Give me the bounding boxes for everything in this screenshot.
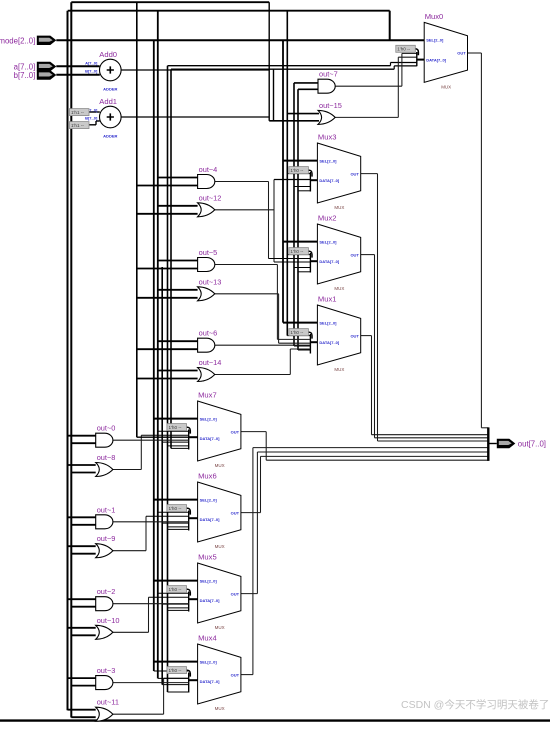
svg-text:out~11: out~11 bbox=[97, 698, 119, 707]
wire Mux3 joiner seg bbox=[378, 440, 489, 442]
input port b[7..0] bbox=[37, 70, 57, 79]
wire v x=287.3 bbox=[286, 11, 288, 336]
and gate out~6 bbox=[198, 338, 215, 352]
wire mode trunk south x=153.8 bbox=[153, 40, 155, 671]
wire left gate in1 y=517.3 bbox=[68, 516, 96, 518]
or gate out~13 bbox=[198, 287, 215, 301]
wire Mux1 joiner seg bbox=[372, 434, 489, 436]
wire out~7 in1 bbox=[294, 82, 318, 84]
bus comb Mux7 bbox=[188, 430, 190, 450]
wire out~13 comb seg bbox=[279, 342, 311, 344]
wire top bus y=2.2 bbox=[71, 1, 269, 3]
svg-text:out~1: out~1 bbox=[97, 505, 116, 514]
wire Mux7 or climb bbox=[140, 435, 142, 469]
svg-text:OUT: OUT bbox=[231, 672, 240, 677]
wire Mux5 joiner seg bbox=[257, 451, 488, 453]
svg-text:out~4: out~4 bbox=[199, 165, 218, 174]
constant Mux0 bbox=[396, 45, 416, 52]
wire fan jog x=394.2 bbox=[393, 66, 395, 69]
wire Mux5 comb lines bbox=[158, 592, 189, 594]
svg-text:MUX: MUX bbox=[334, 286, 344, 291]
svg-text:1'h0 --: 1'h0 -- bbox=[397, 47, 410, 52]
wire Mux2 comb lines bbox=[287, 254, 310, 256]
wire mid gate in2 y=349.2 bbox=[137, 348, 198, 350]
svg-text:Mux1: Mux1 bbox=[318, 295, 337, 304]
wire mid gate in2 y=378.5 bbox=[137, 378, 198, 380]
wire Mux7 DATA feeder bbox=[137, 436, 189, 438]
wire add fan y=65.7 bbox=[168, 65, 391, 67]
wire add fan y=69.2 bbox=[171, 68, 394, 70]
svg-text:1'h0 --: 1'h0 -- bbox=[169, 668, 182, 673]
svg-text:out~0: out~0 bbox=[97, 424, 116, 433]
and gate out~0 bbox=[96, 433, 113, 447]
mux Mux3 bbox=[317, 143, 360, 203]
mux Mux1 bbox=[317, 305, 360, 365]
and gate out~1 bbox=[96, 515, 113, 529]
wire const hook bbox=[186, 508, 190, 514]
svg-text:DATA[7..0]: DATA[7..0] bbox=[426, 57, 447, 62]
wire Mux4 or climb bbox=[163, 678, 165, 714]
svg-text:out~13: out~13 bbox=[199, 277, 222, 286]
wire Mux6 SEL stub bbox=[154, 499, 198, 501]
wire out~14 comb seg bbox=[290, 348, 310, 350]
wire out~7 comb seg bbox=[402, 52, 417, 54]
bus comb Mux2 bbox=[309, 253, 311, 273]
svg-text:out~15: out~15 bbox=[319, 101, 342, 110]
bus comb Mux1 bbox=[309, 334, 311, 354]
wire out~5 descent bbox=[276, 265, 278, 340]
bus comb Mux3 bbox=[309, 172, 311, 192]
svg-text:OUT: OUT bbox=[231, 429, 240, 434]
wire Mux0 out drop bbox=[480, 53, 482, 428]
wire Mux7 comb lines bbox=[158, 430, 189, 432]
wire trunk x=136.8 bbox=[136, 2, 138, 437]
wire out~12 out bbox=[215, 209, 274, 211]
svg-text:OUT: OUT bbox=[350, 333, 359, 338]
wire Mux7 joiner seg bbox=[266, 459, 488, 461]
svg-text:1'h0 --: 1'h0 -- bbox=[169, 425, 182, 430]
wire mid gate in1 y=370.5 bbox=[158, 370, 198, 372]
svg-text:out~12: out~12 bbox=[199, 193, 222, 202]
svg-text:mode[2..0]: mode[2..0] bbox=[0, 36, 35, 45]
constant Mux6 bbox=[167, 505, 187, 512]
adder Add1 bbox=[100, 106, 122, 128]
wire left gate in2 y=635.3 bbox=[71, 634, 95, 636]
and gate out~7 bbox=[318, 79, 335, 93]
wire Mux5 SEL stub bbox=[154, 580, 198, 582]
wire left gate in1 y=627.8 bbox=[68, 627, 96, 629]
svg-text:OUT: OUT bbox=[350, 252, 359, 257]
svg-text:DATA[7..0]: DATA[7..0] bbox=[200, 679, 221, 684]
wire const to Add1.A bbox=[89, 111, 100, 113]
wire Mux2 SEL stub bbox=[283, 241, 317, 243]
svg-text:SEL[2..0]: SEL[2..0] bbox=[200, 416, 218, 421]
wire const to Add1.B elbow bbox=[89, 124, 96, 126]
wire Mux6 or-out bbox=[113, 550, 146, 552]
constant Mux5 bbox=[167, 586, 187, 593]
wire Mux4 out bbox=[241, 674, 253, 676]
wire b trunk x=71.3 bbox=[70, 2, 72, 717]
svg-text:SEL[2..0]: SEL[2..0] bbox=[426, 38, 444, 43]
svg-text:MUX: MUX bbox=[334, 367, 344, 372]
svg-text:out~9: out~9 bbox=[97, 534, 116, 543]
wire mid gate in2 y=213.8 bbox=[137, 213, 198, 215]
wire left gate in1 y=678.1 bbox=[68, 677, 96, 679]
mux Mux2 bbox=[317, 224, 360, 284]
wire const hook bbox=[186, 589, 190, 596]
wire Mux0 joiner jog bbox=[481, 427, 488, 429]
wire out~6 out bbox=[215, 344, 311, 346]
wire Mux5 and-out bbox=[113, 603, 189, 605]
wire mid gate in2 y=268.5 bbox=[137, 268, 198, 270]
svg-text:1'h0 --: 1'h0 -- bbox=[290, 330, 303, 335]
wire Mux6 comb lines bbox=[158, 511, 189, 513]
wire out~15 in2 bbox=[269, 120, 319, 122]
mux Mux6 bbox=[198, 482, 241, 542]
svg-text:out[7..0]: out[7..0] bbox=[518, 440, 546, 449]
wire Mux1 SEL stub bbox=[283, 322, 317, 324]
wire Add1 out y=117 bbox=[121, 116, 269, 118]
bus comb Mux4 bbox=[188, 673, 190, 693]
svg-text:SEL[2..0]: SEL[2..0] bbox=[200, 578, 218, 583]
or gate out~14 bbox=[198, 368, 215, 382]
wire const hook bbox=[308, 332, 312, 339]
wire left gate in1 y=435.7 bbox=[68, 435, 96, 437]
svg-text:OUT: OUT bbox=[350, 171, 359, 176]
or gate out~10 bbox=[96, 625, 113, 639]
wire out~4 descent bbox=[268, 182, 270, 259]
wire left gate in2 y=606.7 bbox=[71, 606, 95, 608]
wire out~13 descent bbox=[278, 294, 280, 343]
wire fan into comb0 y=62.5 bbox=[391, 62, 417, 64]
wire Mux1 comb lines bbox=[287, 335, 310, 337]
wire Mux6 and-out bbox=[113, 521, 189, 523]
wire Mux1 out bbox=[361, 335, 372, 337]
svg-text:DATA[7..0]: DATA[7..0] bbox=[319, 178, 340, 183]
wire out~7 climb bbox=[401, 53, 403, 86]
wire left gate in1 y=599.2 bbox=[68, 598, 96, 600]
svg-text:MUX: MUX bbox=[215, 706, 225, 711]
svg-text:Mux0: Mux0 bbox=[425, 12, 444, 21]
wire Mux6 out bbox=[241, 512, 261, 514]
and gate out~3 bbox=[96, 676, 113, 690]
wire Mux2 drop bbox=[374, 255, 376, 438]
svg-text:Mux3: Mux3 bbox=[318, 133, 337, 142]
bus joiner out[7..0] bbox=[487, 427, 489, 461]
wire mode trunk mid x=283 bbox=[282, 40, 284, 322]
svg-text:SEL[2..0]: SEL[2..0] bbox=[200, 659, 218, 664]
wire mid gate in2 y=185.5 bbox=[137, 185, 198, 187]
wire Mux4 and-out bbox=[113, 682, 189, 684]
wire v x=298 bbox=[297, 89, 299, 350]
wire left gate in2 y=685.6 bbox=[71, 685, 95, 687]
wire mode branch drop x=389.7 bbox=[389, 11, 391, 41]
constant 1h1 A bbox=[70, 109, 90, 116]
wire mid gate in1 y=260.5 bbox=[158, 260, 198, 262]
wire fan jog x=390.5 bbox=[390, 63, 392, 66]
wire left gate in1 y=465.0 bbox=[68, 464, 96, 466]
svg-text:MUX: MUX bbox=[215, 625, 225, 630]
or gate out~8 bbox=[96, 463, 113, 477]
wire trunk x=167.5 bbox=[167, 66, 169, 692]
wire mid gate in1 y=289.8 bbox=[158, 289, 198, 291]
svg-text:out~14: out~14 bbox=[199, 358, 222, 367]
wire const hook bbox=[186, 670, 190, 677]
svg-text:Mux7: Mux7 bbox=[198, 391, 217, 400]
wire Mux6 joiner seg bbox=[261, 455, 489, 457]
wire out~5 comb seg bbox=[277, 338, 310, 340]
wire Mux5 riser bbox=[256, 452, 258, 594]
svg-text:out~7: out~7 bbox=[319, 70, 338, 79]
wire mid gate in2 y=297.8 bbox=[137, 297, 198, 299]
wire out~14 climb bbox=[289, 349, 291, 375]
wire Mux7 or-out bbox=[113, 469, 141, 471]
svg-text:out~2: out~2 bbox=[97, 587, 116, 596]
svg-text:ADDER: ADDER bbox=[103, 134, 117, 139]
mux Mux0 bbox=[424, 22, 467, 82]
wire Mux4 joiner seg bbox=[253, 447, 488, 449]
wire out~4 out bbox=[215, 181, 269, 183]
svg-text:1'h1 --: 1'h1 -- bbox=[71, 123, 84, 128]
mux Mux5 bbox=[198, 563, 241, 623]
constant Mux7 bbox=[167, 424, 187, 431]
wire out~15 in1 bbox=[287, 113, 319, 115]
wire b to Add0.B bbox=[56, 74, 100, 76]
bus comb Mux6 bbox=[188, 511, 190, 531]
svg-text:MUX: MUX bbox=[215, 463, 225, 468]
wire left gate in2 y=443.2 bbox=[71, 442, 95, 444]
svg-text:CSDN @今天不学习明天被卷了: CSDN @今天不学习明天被卷了 bbox=[401, 698, 549, 711]
or gate out~11 bbox=[96, 707, 113, 721]
wire left gate in1 y=546.2 bbox=[68, 545, 96, 547]
wire Mux4 or-out bbox=[113, 713, 164, 715]
wire const hook bbox=[186, 427, 190, 434]
svg-text:SEL[2..0]: SEL[2..0] bbox=[319, 320, 337, 325]
wire left gate in1 y=709.7 bbox=[68, 709, 96, 711]
wire Mux3 SEL stub bbox=[283, 160, 317, 162]
svg-text:1'h1 --: 1'h1 -- bbox=[71, 110, 84, 115]
wire trunk x=162.5 bbox=[161, 267, 163, 685]
wire const hook bbox=[308, 251, 312, 258]
mux Mux7 bbox=[198, 401, 241, 461]
wire v x=294 bbox=[293, 83, 295, 346]
wire out~7 in2 bbox=[298, 88, 318, 90]
wire left gate in2 y=553.7 bbox=[71, 553, 95, 555]
and gate out~5 bbox=[198, 258, 215, 272]
svg-text:B[7..0]: B[7..0] bbox=[85, 69, 98, 74]
wire Mux4 SEL stub bbox=[154, 661, 198, 663]
wire Mux5 out bbox=[241, 593, 258, 595]
svg-text:DATA[7..0]: DATA[7..0] bbox=[200, 598, 221, 603]
svg-text:Mux4: Mux4 bbox=[198, 634, 217, 643]
wire out~7 out bbox=[335, 85, 402, 87]
svg-text:1'h0 --: 1'h0 -- bbox=[290, 168, 303, 173]
border bottom line bbox=[0, 719, 550, 721]
wire Mux5 or-out bbox=[113, 631, 149, 633]
or gate out~15 bbox=[318, 110, 335, 124]
svg-text:ADDER: ADDER bbox=[103, 87, 117, 92]
wire left gate in2 y=524.8 bbox=[71, 524, 95, 526]
svg-text:out~6: out~6 bbox=[199, 329, 218, 338]
wire Mux7 out bbox=[241, 431, 266, 433]
svg-text:DATA[7..0]: DATA[7..0] bbox=[319, 259, 340, 264]
and gate out~2 bbox=[96, 597, 113, 611]
wire Mux1 drop bbox=[371, 336, 373, 435]
svg-text:Add0: Add0 bbox=[99, 50, 117, 59]
wire a to Add0.A bbox=[56, 65, 99, 67]
wire v x=274 bbox=[273, 180, 275, 263]
svg-text:A[7..0]: A[7..0] bbox=[85, 61, 98, 66]
adder Add0 bbox=[100, 59, 122, 81]
wire out~15 out bbox=[335, 116, 398, 118]
svg-text:b[7..0]: b[7..0] bbox=[14, 71, 36, 80]
constant Mux4 bbox=[167, 667, 187, 674]
wire mid gate in1 y=341.2 bbox=[158, 340, 198, 342]
wire Mux7 SEL stub bbox=[154, 418, 198, 420]
wire out~15 comb seg bbox=[398, 56, 417, 58]
wire Mux7 riser bbox=[265, 432, 267, 461]
svg-text:out~8: out~8 bbox=[97, 453, 116, 462]
svg-text:DATA[7..0]: DATA[7..0] bbox=[200, 517, 221, 522]
svg-text:Mux6: Mux6 bbox=[198, 472, 217, 481]
constant 1h1 B bbox=[70, 122, 90, 129]
constant Mux2 bbox=[289, 248, 309, 255]
svg-text:1'h0 --: 1'h0 -- bbox=[169, 587, 182, 592]
wire mode branch y=10.7 bbox=[68, 10, 390, 12]
wire Mux7 and-out bbox=[113, 439, 189, 441]
wire Mux3 drop bbox=[377, 174, 379, 441]
svg-text:OUT: OUT bbox=[457, 51, 466, 56]
wire Mux4 comb lines bbox=[154, 670, 189, 672]
svg-text:B[7..0]: B[7..0] bbox=[85, 116, 98, 121]
wire left gate in2 y=717.2 bbox=[71, 716, 95, 718]
wire mode bus to Mux0 SEL bbox=[56, 39, 424, 41]
svg-text:Mux2: Mux2 bbox=[318, 214, 337, 223]
svg-text:MUX: MUX bbox=[215, 544, 225, 549]
wire Mux3 comb lines bbox=[287, 173, 310, 175]
wire Mux6 or climb bbox=[145, 516, 147, 550]
wire mid gate in1 y=177.5 bbox=[158, 177, 198, 179]
svg-text:OUT: OUT bbox=[231, 591, 240, 596]
wire Mux3 out bbox=[361, 173, 378, 175]
svg-text:Add1: Add1 bbox=[99, 97, 117, 106]
or gate out~12 bbox=[198, 203, 215, 217]
input port mode[2..0] bbox=[37, 36, 57, 45]
wire out~5 out bbox=[215, 264, 278, 266]
wire Mux0 out bbox=[468, 52, 482, 54]
svg-text:DATA[7..0]: DATA[7..0] bbox=[200, 436, 221, 441]
svg-text:1'h0 --: 1'h0 -- bbox=[290, 249, 303, 254]
svg-text:OUT: OUT bbox=[231, 510, 240, 515]
bus comb Mux0 bbox=[416, 52, 418, 66]
svg-text:out~5: out~5 bbox=[199, 248, 218, 257]
constant Mux1 bbox=[289, 329, 309, 336]
output port out[7..0] bbox=[497, 439, 516, 448]
wire mid gate in1 y=205.8 bbox=[158, 205, 198, 207]
wire Mux5 or climb bbox=[148, 597, 150, 632]
wire Mux2 joiner seg bbox=[375, 437, 489, 439]
wire Mux2 out bbox=[361, 254, 375, 256]
wire out~15 climb bbox=[397, 57, 399, 117]
wire trunk x=171 bbox=[170, 69, 172, 448]
wire a trunk x=67.5 bbox=[67, 11, 69, 711]
input port a[7..0] bbox=[37, 62, 57, 71]
svg-text:SEL[2..0]: SEL[2..0] bbox=[319, 158, 337, 163]
wire Mux4 riser bbox=[252, 448, 254, 675]
constant Mux3 bbox=[289, 167, 309, 174]
wire Add0 out y=70 bbox=[121, 69, 269, 71]
mux Mux4 bbox=[198, 644, 241, 704]
svg-text:DATA[7..0]: DATA[7..0] bbox=[319, 340, 340, 345]
svg-text:out~10: out~10 bbox=[97, 616, 120, 625]
svg-text:1'h0 --: 1'h0 -- bbox=[169, 506, 182, 511]
wire out~13 out bbox=[215, 293, 279, 295]
wire left gate in2 y=472.5 bbox=[71, 472, 95, 474]
or gate out~9 bbox=[96, 544, 113, 558]
svg-text:SEL[2..0]: SEL[2..0] bbox=[200, 497, 218, 502]
wire fan into comb0 y=65.9 bbox=[394, 65, 417, 67]
wire const hook bbox=[415, 49, 419, 56]
svg-text:MUX: MUX bbox=[441, 84, 451, 89]
wire v x=273.5 bbox=[273, 69, 275, 121]
svg-text:out~3: out~3 bbox=[97, 666, 116, 675]
wire out~14 out bbox=[215, 374, 290, 376]
bus comb Mux5 bbox=[188, 592, 190, 612]
svg-text:Mux5: Mux5 bbox=[198, 553, 217, 562]
svg-text:MUX: MUX bbox=[334, 205, 344, 210]
wire v x=269.2 bbox=[268, 2, 270, 121]
wire Mux6 riser bbox=[260, 456, 262, 512]
svg-text:SEL[2..0]: SEL[2..0] bbox=[319, 239, 337, 244]
and gate out~4 bbox=[198, 175, 215, 189]
wire const hook bbox=[308, 170, 312, 177]
wire trunk x=157.8 bbox=[157, 11, 159, 679]
